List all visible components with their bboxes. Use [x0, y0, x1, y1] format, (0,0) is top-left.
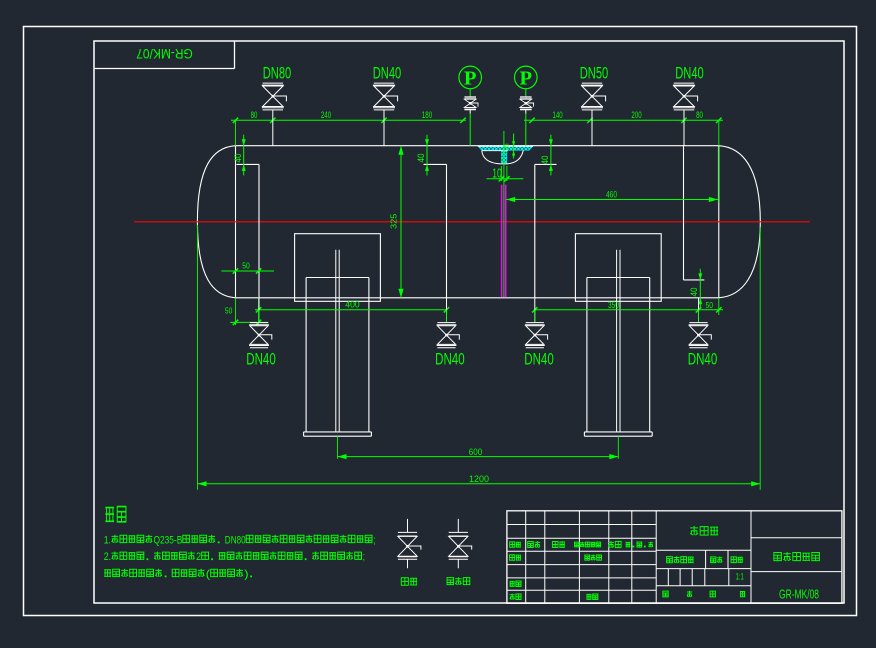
svg-text:Q235-B: Q235-B	[154, 534, 183, 546]
svg-text:140: 140	[553, 110, 563, 120]
svg-text:DN80: DN80	[225, 534, 246, 546]
svg-text:40: 40	[416, 154, 426, 163]
svg-text:40: 40	[540, 156, 550, 165]
svg-text:80: 80	[696, 110, 703, 120]
svg-text:10: 10	[492, 167, 502, 181]
svg-text:DN50: DN50	[580, 64, 609, 83]
svg-text:50: 50	[706, 300, 714, 310]
svg-text:DN80: DN80	[263, 64, 292, 83]
svg-text:50: 50	[242, 261, 250, 271]
svg-text:DN40: DN40	[524, 350, 554, 368]
svg-text:1.: 1.	[104, 534, 111, 546]
svg-text:DN40: DN40	[373, 64, 402, 83]
svg-text:40: 40	[233, 154, 243, 163]
svg-text:DN40: DN40	[435, 350, 465, 368]
svg-text:DN40: DN40	[688, 350, 718, 368]
svg-text:): )	[244, 568, 249, 580]
svg-text:;: ;	[373, 534, 375, 546]
svg-text:200: 200	[631, 110, 641, 120]
svg-text:1:1: 1:1	[736, 572, 744, 583]
svg-text:460: 460	[606, 189, 617, 199]
svg-text:P: P	[520, 68, 533, 90]
svg-text:240: 240	[321, 110, 331, 120]
svg-text:;: ;	[363, 551, 365, 563]
svg-text:80: 80	[251, 110, 258, 120]
svg-text:1200: 1200	[469, 474, 489, 484]
svg-text:325: 325	[389, 213, 399, 229]
svg-text:350: 350	[608, 300, 619, 310]
svg-text:40: 40	[689, 288, 699, 297]
svg-text:35: 35	[504, 143, 511, 151]
svg-text:P: P	[464, 68, 477, 90]
svg-text:GR-MK/07: GR-MK/07	[136, 46, 193, 62]
svg-text:GR-MK/08: GR-MK/08	[779, 588, 819, 602]
svg-text:DN40: DN40	[675, 64, 704, 83]
svg-text:50: 50	[225, 306, 233, 316]
svg-text:400: 400	[345, 300, 360, 310]
svg-text:180: 180	[422, 110, 432, 120]
svg-text:(: (	[206, 568, 211, 580]
svg-text:2.: 2.	[104, 551, 111, 563]
svg-text:600: 600	[469, 447, 483, 457]
svg-text:DN40: DN40	[246, 350, 276, 368]
svg-text:2: 2	[196, 551, 201, 563]
